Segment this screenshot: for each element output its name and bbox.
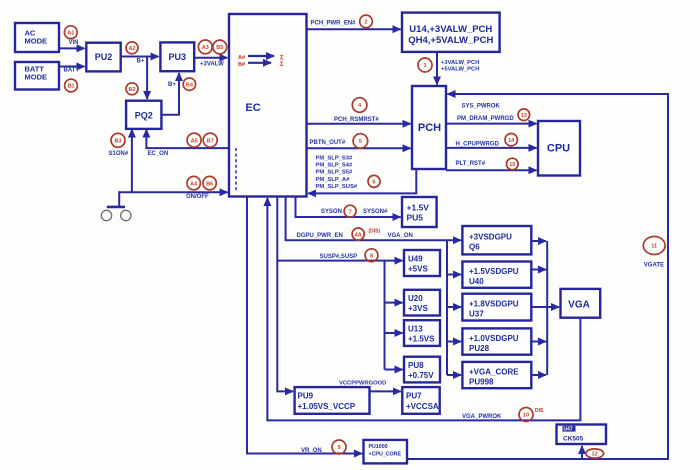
step circle A4 (187, 176, 200, 189)
svg-text:PU3: PU3 (169, 52, 187, 62)
svg-text:PM_SLP_S3#: PM_SLP_S3# (316, 155, 354, 161)
svg-text:QH4,+5VALW_PCH: QH4,+5VALW_PCH (408, 35, 493, 46)
wire VGA_ON branch to PU998 (447, 374, 461, 376)
wire ON/OFF from switch to EC (118, 191, 227, 193)
wire PLT_RST# PCH to CPU (446, 169, 537, 171)
regulator PU3 (160, 42, 194, 71)
svg-text:A5: A5 (191, 138, 198, 144)
step circle 2 (360, 15, 373, 28)
svg-text:+1.05VS_VCCP: +1.05VS_VCCP (298, 402, 356, 411)
svg-text:VIN: VIN (69, 40, 79, 46)
wire Q6 output to bus (531, 240, 546, 242)
svg-text:Σ: Σ (280, 62, 284, 68)
wire VGA_ON branch to PU28 (447, 341, 461, 343)
regulator U40 +1.5VSDGPU (462, 262, 531, 288)
svg-text:A4: A4 (190, 181, 198, 187)
regulator PU28 +1.0VSDGPU (462, 328, 531, 354)
svg-text:2: 2 (364, 20, 367, 26)
svg-text:3: 3 (423, 63, 426, 69)
svg-text:PM_SLP_S4#: PM_SLP_S4# (316, 163, 354, 169)
switch contact right (121, 210, 131, 220)
svg-text:B1: B1 (67, 84, 74, 90)
step circle 7 (344, 205, 356, 217)
svg-text:+1.5VS: +1.5VS (408, 335, 435, 344)
regulator U13 (404, 320, 440, 346)
svg-text:A2: A2 (128, 46, 135, 52)
step circle 13 (518, 109, 530, 121)
svg-text:PU7: PU7 (406, 392, 422, 401)
svg-text:B7: B7 (207, 138, 214, 144)
step circle 4 (352, 98, 367, 113)
step circle 10 with DIS note (519, 408, 544, 422)
svg-text:H_CPUPWRGD: H_CPUPWRGD (456, 142, 500, 148)
step circle B2 (126, 83, 138, 95)
svg-text:PU28: PU28 (469, 344, 490, 353)
svg-text:PCH_RSMRST#: PCH_RSMRST# (334, 117, 379, 123)
wire SUSP branch to PU8 (385, 369, 403, 371)
regulator U37 +1.8VSDGPU (462, 294, 531, 321)
svg-text:+5VS: +5VS (408, 265, 428, 274)
regulator U14/QH4 (402, 13, 500, 52)
svg-text:B+: B+ (168, 82, 176, 88)
wire VGA_ON branch to U40 (447, 274, 461, 276)
svg-text:PM_SLP_A#: PM_SLP_A# (316, 177, 351, 183)
svg-text:U40: U40 (469, 277, 484, 286)
wire SUSP from EC down to PU9 (277, 197, 293, 392)
regulator Q6 +3VSDGPU (462, 226, 531, 254)
wire PCH_RSMRST# from EC to PCH (307, 123, 411, 125)
regulator PU2 (86, 43, 120, 72)
step circle B4 (183, 78, 195, 90)
svg-text:U47: U47 (564, 427, 573, 433)
power button bar (107, 206, 125, 209)
step circle 15 (507, 158, 519, 170)
wire PBTN_OUT# from EC to PCH (307, 147, 411, 149)
wire DGPU_PWR_EN / VGA_ON from EC to Q6 (286, 197, 461, 241)
wire H_CPUPWRGD PCH to CPU (446, 147, 537, 149)
svg-text:B3: B3 (114, 139, 121, 145)
svg-text:A#: A# (238, 55, 245, 61)
svg-text:11: 11 (651, 244, 657, 250)
regulator U20 (404, 290, 440, 316)
PCH box (412, 86, 446, 169)
svg-text:B#: B# (238, 62, 245, 68)
wire BATT MODE to PU2 (BATT) (59, 66, 85, 68)
svg-text:Σ: Σ (280, 56, 284, 62)
wire PU1000 output bottom rail up right side to PCH (SYS_PWROK) (407, 94, 668, 459)
svg-text:+3VALW: +3VALW (200, 62, 224, 68)
svg-text:+3VS: +3VS (408, 304, 428, 313)
svg-text:+3VSDGPU: +3VSDGPU (469, 233, 512, 242)
CPU box (538, 121, 580, 176)
svg-text:ON/OFF: ON/OFF (186, 194, 209, 200)
transistor PQ2 (126, 101, 161, 129)
svg-text:12: 12 (592, 452, 598, 458)
svg-text:U37: U37 (469, 310, 484, 319)
step circle B7 (203, 133, 217, 147)
svg-text:PCH: PCH (418, 122, 441, 134)
svg-text:4A: 4A (355, 232, 362, 238)
wire PU998 output to bus (531, 374, 546, 376)
svg-text:VGATE: VGATE (644, 262, 664, 268)
svg-text:CK505: CK505 (563, 436, 584, 443)
svg-text:PBTN_OUT#: PBTN_OUT# (310, 140, 346, 146)
switch contact left (101, 210, 111, 220)
wire AC MODE to PU2 (VIN) (59, 47, 85, 49)
svg-text:15: 15 (509, 162, 515, 168)
svg-text:+1.5VSDGPU: +1.5VSDGPU (469, 267, 519, 276)
svg-text:VR_ON: VR_ON (301, 448, 322, 454)
wire U37 output to VGA (531, 306, 559, 308)
svg-text:PU1000: PU1000 (369, 444, 388, 450)
wire PM_SLP bus from PCH to EC (308, 169, 416, 193)
svg-text:PU998: PU998 (469, 378, 494, 387)
svg-text:PM_DRAM_PWRGD: PM_DRAM_PWRGD (457, 116, 514, 122)
box AC MODE (15, 23, 59, 52)
wire VGA_PWROK from VGA back to EC (267, 198, 580, 420)
svg-text:14: 14 (508, 138, 515, 144)
step circle A1 (64, 26, 77, 39)
svg-text:PM_SLP_S5#: PM_SLP_S5# (316, 170, 354, 176)
svg-text:VCCPPWRGOOD: VCCPPWRGOOD (339, 381, 386, 387)
wire S1ON# up into PQ2 (131, 130, 133, 193)
step circle 9 (332, 440, 346, 454)
svg-text:PM_SLP_SUS#: PM_SLP_SUS# (316, 184, 358, 190)
svg-text:10: 10 (523, 413, 529, 419)
step circle B5 (213, 40, 227, 54)
svg-text:B4: B4 (186, 82, 194, 88)
step circle 5 (353, 134, 368, 149)
svg-text:B5: B5 (216, 45, 223, 51)
wire VCCPPWRGOOD PU9 to PU7 (370, 390, 401, 392)
wire PQ2 to PU3 bottom (B+) (161, 73, 179, 115)
svg-text:+CPU_CORE: +CPU_CORE (369, 452, 402, 458)
wire PM_DRAM_PWRGD PCH to CPU (446, 123, 537, 125)
wire B+ branch down to PQ2 (146, 57, 148, 100)
svg-text:EC: EC (245, 102, 260, 114)
regulator PU8 (404, 357, 440, 383)
step circle A2 (126, 42, 138, 54)
wire PCH_PWR_EN# from EC to U14 (307, 28, 401, 30)
svg-text:CPU: CPU (547, 143, 570, 155)
VGA box (561, 289, 601, 318)
svg-text:MODE: MODE (25, 37, 48, 46)
box BATT MODE (15, 62, 59, 90)
step circle A5 (187, 133, 201, 147)
wire U14 to PCH (+3VALW_PCH/+5VALW_PCH) (436, 52, 438, 85)
svg-text:VGA: VGA (568, 300, 590, 311)
svg-text:+5VALW_PCH: +5VALW_PCH (441, 67, 479, 73)
dashed boundary inside EC (235, 148, 237, 192)
svg-text:SYSON: SYSON (321, 209, 342, 215)
step circle 3 (418, 58, 432, 72)
regulator PU9 (295, 387, 370, 414)
svg-text:+0.75V: +0.75V (408, 371, 434, 380)
svg-text:B2: B2 (128, 87, 135, 93)
svg-text:+1.5V: +1.5V (407, 203, 430, 213)
svg-text:(DIS): (DIS) (369, 228, 381, 234)
svg-text:SYSON#: SYSON# (363, 209, 388, 215)
svg-text:A1: A1 (67, 30, 74, 36)
step circle B3 (111, 133, 125, 147)
svg-text:8: 8 (370, 253, 373, 259)
EC internal arrow B# (248, 62, 271, 64)
svg-text:U20: U20 (408, 294, 423, 303)
regulator PU5 (402, 197, 437, 227)
regulator PU7 (402, 387, 439, 414)
svg-text:BATT: BATT (64, 68, 80, 74)
regulator PU1000 (364, 440, 408, 464)
svg-text:13: 13 (521, 113, 527, 119)
svg-text:VGA_PWROK: VGA_PWROK (462, 414, 502, 420)
step circle A3 (198, 40, 212, 54)
svg-text:+3VALW_PCH: +3VALW_PCH (441, 60, 479, 66)
wire SUSP#,SUSP to U49 (277, 260, 402, 262)
wire VGA input bus vertical (546, 241, 548, 375)
wire PU2 to PU3 (B+) (121, 56, 159, 58)
wire PU3 to EC (+3VALW) (194, 57, 227, 59)
wire SUSP branch to U20 (385, 302, 403, 304)
svg-text:PQ2: PQ2 (135, 110, 153, 120)
wire PU28 output to bus (531, 341, 546, 343)
svg-text:5: 5 (359, 139, 362, 145)
power button switch stem (118, 191, 120, 206)
svg-text:SUSP#,SUSP: SUSP#,SUSP (320, 254, 358, 260)
step circle 4A with DIS note (352, 228, 380, 240)
step circle 8 (365, 249, 378, 262)
regulator U49 (404, 250, 440, 276)
svg-text:B+: B+ (137, 58, 145, 64)
wire VGA_ON vertical bus (446, 240, 448, 375)
step circle B1 (65, 79, 78, 92)
svg-text:DIS: DIS (535, 408, 544, 414)
regulator PU998 +VGA_CORE (462, 362, 531, 388)
wire branch up into CK505 (581, 446, 583, 459)
wire SUSP vertical sub-bus (384, 261, 386, 370)
svg-text:DGPU_PWR_EN: DGPU_PWR_EN (297, 233, 343, 239)
EC box (229, 14, 307, 197)
step circle 6 (368, 175, 380, 187)
svg-text:B6: B6 (206, 181, 213, 187)
wire U40 output to bus (531, 269, 546, 271)
svg-text:+VGA_CORE: +VGA_CORE (469, 368, 519, 377)
svg-text:U14,+3VALW_PCH: U14,+3VALW_PCH (409, 24, 492, 35)
svg-text:U49: U49 (408, 255, 423, 264)
svg-text:SYS_PWROK: SYS_PWROK (462, 104, 501, 110)
svg-text:6: 6 (372, 180, 375, 186)
wire VR_ON from EC to PU1000 (247, 197, 362, 454)
clock generator U47 CK505 (557, 425, 607, 445)
wire EC_ON from EC to PQ2 (146, 130, 229, 149)
wire SYSON from EC to PU5 (296, 197, 401, 218)
step circle 11 VGATE (643, 237, 665, 255)
EC internal arrow A# (248, 55, 274, 57)
svg-text:PU8: PU8 (408, 361, 424, 370)
svg-text:+1.0VSDGPU: +1.0VSDGPU (469, 334, 519, 343)
svg-text:9: 9 (337, 445, 340, 451)
svg-text:Q6: Q6 (469, 243, 480, 252)
step circle B6 (203, 176, 216, 189)
svg-text:+VCCSA: +VCCSA (406, 402, 439, 411)
step circle 14 (505, 134, 517, 146)
svg-text:PU2: PU2 (95, 52, 113, 62)
svg-text:7: 7 (349, 209, 352, 215)
svg-text:+1.8VSDGPU: +1.8VSDGPU (469, 300, 519, 309)
svg-text:VGA_ON: VGA_ON (388, 233, 413, 239)
svg-text:EC_ON: EC_ON (148, 151, 169, 157)
svg-text:MODE: MODE (25, 73, 48, 82)
svg-text:PU9: PU9 (298, 392, 314, 401)
step circle 12 (586, 449, 604, 458)
svg-text:PCH_PWR_EN#: PCH_PWR_EN# (311, 21, 357, 27)
svg-text:PU5: PU5 (407, 213, 424, 223)
wire VGA_ON branch to U37 (447, 306, 461, 308)
svg-text:PLT_RST#: PLT_RST# (456, 161, 486, 167)
svg-text:U13: U13 (408, 325, 423, 334)
svg-text:S1ON#: S1ON# (109, 151, 129, 157)
svg-text:A3: A3 (202, 45, 209, 51)
wire SUSP branch to U13 (385, 332, 403, 334)
